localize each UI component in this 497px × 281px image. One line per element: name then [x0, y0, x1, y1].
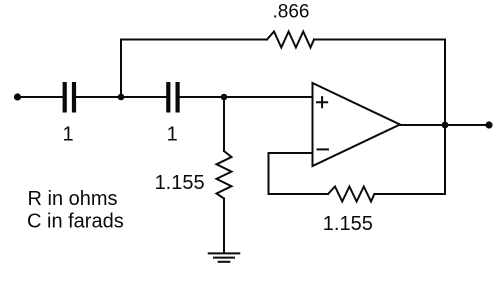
wire C1 to node A [76, 96, 121, 98]
op-amp U1 triangle [313, 83, 401, 166]
junction node A dot [118, 94, 125, 101]
svg-text:1: 1 [62, 124, 73, 146]
wire top feedback drop to output node [444, 40, 446, 126]
svg-text:R in ohms: R in ohms [28, 188, 118, 210]
svg-text:1: 1 [167, 124, 178, 146]
wire node B to op-amp + input [224, 96, 313, 98]
wire top horizontal right [314, 39, 445, 41]
wire op-amp minus input [269, 152, 313, 154]
wire feedback riser at node A [120, 40, 122, 98]
wire C2 to node B [180, 96, 224, 98]
wire lower feedback right [374, 193, 445, 195]
wire R2 to ground [223, 199, 225, 254]
wire input to C1 [18, 96, 63, 98]
wire lower feedback left [269, 193, 329, 195]
svg-text:.866: .866 [273, 2, 310, 23]
op-amp minus sign [318, 148, 329, 150]
capacitor C2 plates [166, 82, 170, 113]
wire op-amp output [400, 124, 489, 126]
svg-text:C in farads: C in farads [27, 211, 124, 233]
op-amp plus sign [317, 97, 327, 107]
wire top horizontal left [121, 39, 267, 41]
output node dot [442, 122, 449, 129]
svg-text:1.155: 1.155 [323, 213, 373, 235]
output terminal dot [485, 121, 492, 128]
input terminal dot [14, 93, 21, 100]
wire node B down to R2 [223, 97, 225, 151]
resistor .866 zigzag [267, 32, 314, 48]
resistor 1.155 vertical zigzag [217, 151, 232, 199]
capacitor C1 plates [63, 82, 67, 113]
ground [209, 252, 240, 254]
svg-text:1.155: 1.155 [155, 172, 205, 194]
junction node B dot [221, 94, 228, 101]
wire node A to C2 [121, 96, 166, 98]
wire lower feedback riser to output node [444, 125, 446, 194]
wire minus input drop [268, 153, 270, 194]
resistor 1.155 lower zigzag [328, 187, 374, 202]
